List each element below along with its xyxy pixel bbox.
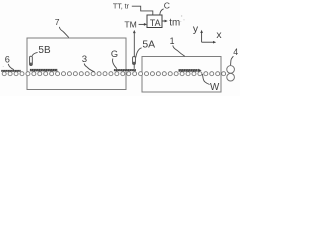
pinch rollers 4 xyxy=(227,66,235,81)
wire TM arrow into TA xyxy=(139,23,145,25)
svg-text:3: 3 xyxy=(82,54,87,65)
svg-text:1: 1 xyxy=(170,36,175,46)
svg-text:5A: 5A xyxy=(142,40,155,51)
svg-text:4: 4 xyxy=(233,47,238,57)
coordinate axes x-y xyxy=(202,32,214,42)
plate outside left xyxy=(1,70,21,72)
controller box TA xyxy=(147,15,162,28)
leader G xyxy=(113,59,117,69)
workpiece G (hatched bar) xyxy=(114,69,136,71)
leader 6 xyxy=(8,64,14,70)
workpiece W (hatched bar) xyxy=(178,69,197,72)
chamber box 1 (right furnace) xyxy=(142,57,221,93)
svg-text:C: C xyxy=(164,1,170,11)
leader 5B xyxy=(32,52,37,56)
svg-text:y: y xyxy=(193,24,199,35)
leader 4 xyxy=(231,56,234,65)
leader 1 xyxy=(173,45,185,56)
svg-text:W: W xyxy=(210,82,220,93)
wire tm out of TA xyxy=(162,20,165,22)
plate inside chamber 7 xyxy=(30,69,58,72)
svg-text:TA: TA xyxy=(150,18,161,28)
svg-text:7: 7 xyxy=(55,17,60,27)
leader 7 xyxy=(59,27,68,38)
svg-text:G: G xyxy=(111,49,118,59)
leader C xyxy=(160,9,164,15)
leader 5A xyxy=(136,48,142,58)
wire sensor 5A up to TM xyxy=(133,32,135,56)
svg-text:5B: 5B xyxy=(38,45,51,56)
chamber box 7 (left furnace) xyxy=(27,38,126,90)
svg-text:tm: tm xyxy=(169,18,180,29)
svg-text:x: x xyxy=(216,30,222,41)
wire TT,tr to TA xyxy=(132,6,153,15)
sensor 5B xyxy=(30,56,33,65)
svg-text:TT, tr: TT, tr xyxy=(113,2,130,11)
leader 3 xyxy=(84,64,94,72)
svg-text:TM: TM xyxy=(124,19,136,29)
sensor 5A xyxy=(133,57,136,69)
scan speckles xyxy=(3,15,185,67)
conveyor rollers 3 xyxy=(2,72,225,76)
leader W xyxy=(202,74,209,85)
direction arrow on W xyxy=(198,69,202,72)
svg-text:6: 6 xyxy=(5,54,10,64)
